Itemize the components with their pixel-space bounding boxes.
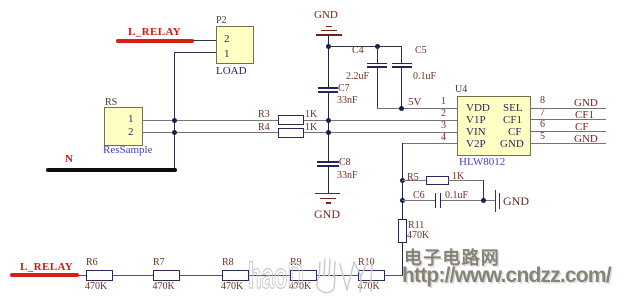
wire U4 pin6 [530,131,606,132]
wire gnd down to C7 [328,36,329,88]
resistor R7 [153,257,165,268]
junction C6/GND row [481,198,486,203]
wire vertical P2 pin1 down to N [174,52,175,168]
pin 1 label [128,113,134,125]
net label CF1 [575,109,594,121]
wire R5 right corner down [483,180,484,200]
label HLW8012 [459,156,505,168]
wire U4 pin5 [530,143,606,144]
pin name V1P [466,114,486,126]
pin name GND [500,138,524,150]
wire to P2 pin 2 [193,40,217,41]
junction C6 row [400,198,405,203]
wire rail to C4/C5 tops [328,46,402,47]
wire N (thick black) [46,168,177,173]
capacitor C4 [377,46,378,63]
wire RS pin1 to R3 [142,120,278,121]
resistor R8 [222,257,234,268]
pin name SEL [503,102,523,114]
wire R3 to U4 pin2 [304,120,457,121]
net label GND pin8 [574,97,598,109]
wire C7 down through junctions to C8 [328,93,329,162]
wire C8 to ground [328,167,329,193]
pin name VIN [466,126,486,138]
wire R4 to U4 pin3 [304,132,457,133]
resistor R3 [258,109,270,120]
resistor R5 [407,172,419,183]
net label L_RELAY (top) [128,26,181,38]
label LOAD [216,65,247,77]
wire U4 pin4 to vertical [402,143,457,144]
resistor R9 [290,257,302,268]
pin number 6 [540,119,545,130]
junction P2/RS vertical on pin2 line [172,130,177,135]
wire RS pin2 to R4 [142,132,278,133]
junction C7 line on V1P [326,118,331,123]
resistor R10 [358,257,375,268]
watermark 电子电路网 [404,244,500,270]
pin name V2P [466,138,486,150]
net label CF [575,121,588,133]
ground GND (bottom) [315,193,340,195]
wire P2 pin 1 to vertical [174,52,217,53]
ground GND (top) [314,9,338,21]
pin number 5 [540,131,545,142]
resistor R11 [398,219,408,243]
junction R5 row [400,178,405,183]
capacitor C5 [401,46,402,63]
label ResSample [103,144,153,156]
net label N [65,153,73,165]
pin 2 label [128,126,134,138]
junction C7 line on VIN [326,130,331,135]
capacitor C6 [413,190,425,201]
wire U4 pin7 [530,119,606,120]
power port GND (right) [495,190,497,213]
pin number 3 [441,120,446,131]
pin number 1 [441,96,446,107]
connector RS [105,97,117,108]
capacitor C7 [318,87,339,89]
pin 2 label [224,33,230,45]
net label L_RELAY (bottom) [20,261,73,273]
watermark hand + VY (faint) [314,256,384,296]
junction gnd/C4C5 rail [326,44,331,49]
resistor R4 [258,122,270,133]
pin number 2 [441,108,446,119]
IC U4 [455,84,467,95]
pin number 8 [540,95,545,106]
junction C5 on 5V rail [399,106,404,111]
wire L_RELAY highlighted (bottom red bus) [10,273,79,277]
junction C4 top [375,44,380,49]
watermark url [402,264,611,288]
pin name CF [508,126,521,138]
junction P2/RS vertical on pin1 line [172,118,177,123]
connector P2 [216,15,227,26]
net label GND pin5 [574,133,598,145]
pin number 7 [540,107,545,118]
wire U4 pin8 [530,108,606,109]
watermark haoDIY (faint) [248,255,304,297]
wire 5V rail to U4 pin1 [377,108,457,109]
pin 1 label [224,48,230,60]
wire L_RELAY highlighted (red bus) [116,39,194,43]
capacitor C8 [317,161,340,163]
pin number 4 [441,132,446,143]
pin name VDD [466,102,490,114]
net label 5V [408,96,421,108]
wire bottom chain [79,275,403,276]
wire vertical V2P net down [402,143,403,275]
pin name CF1 [503,114,522,126]
resistor R6 [86,257,98,268]
